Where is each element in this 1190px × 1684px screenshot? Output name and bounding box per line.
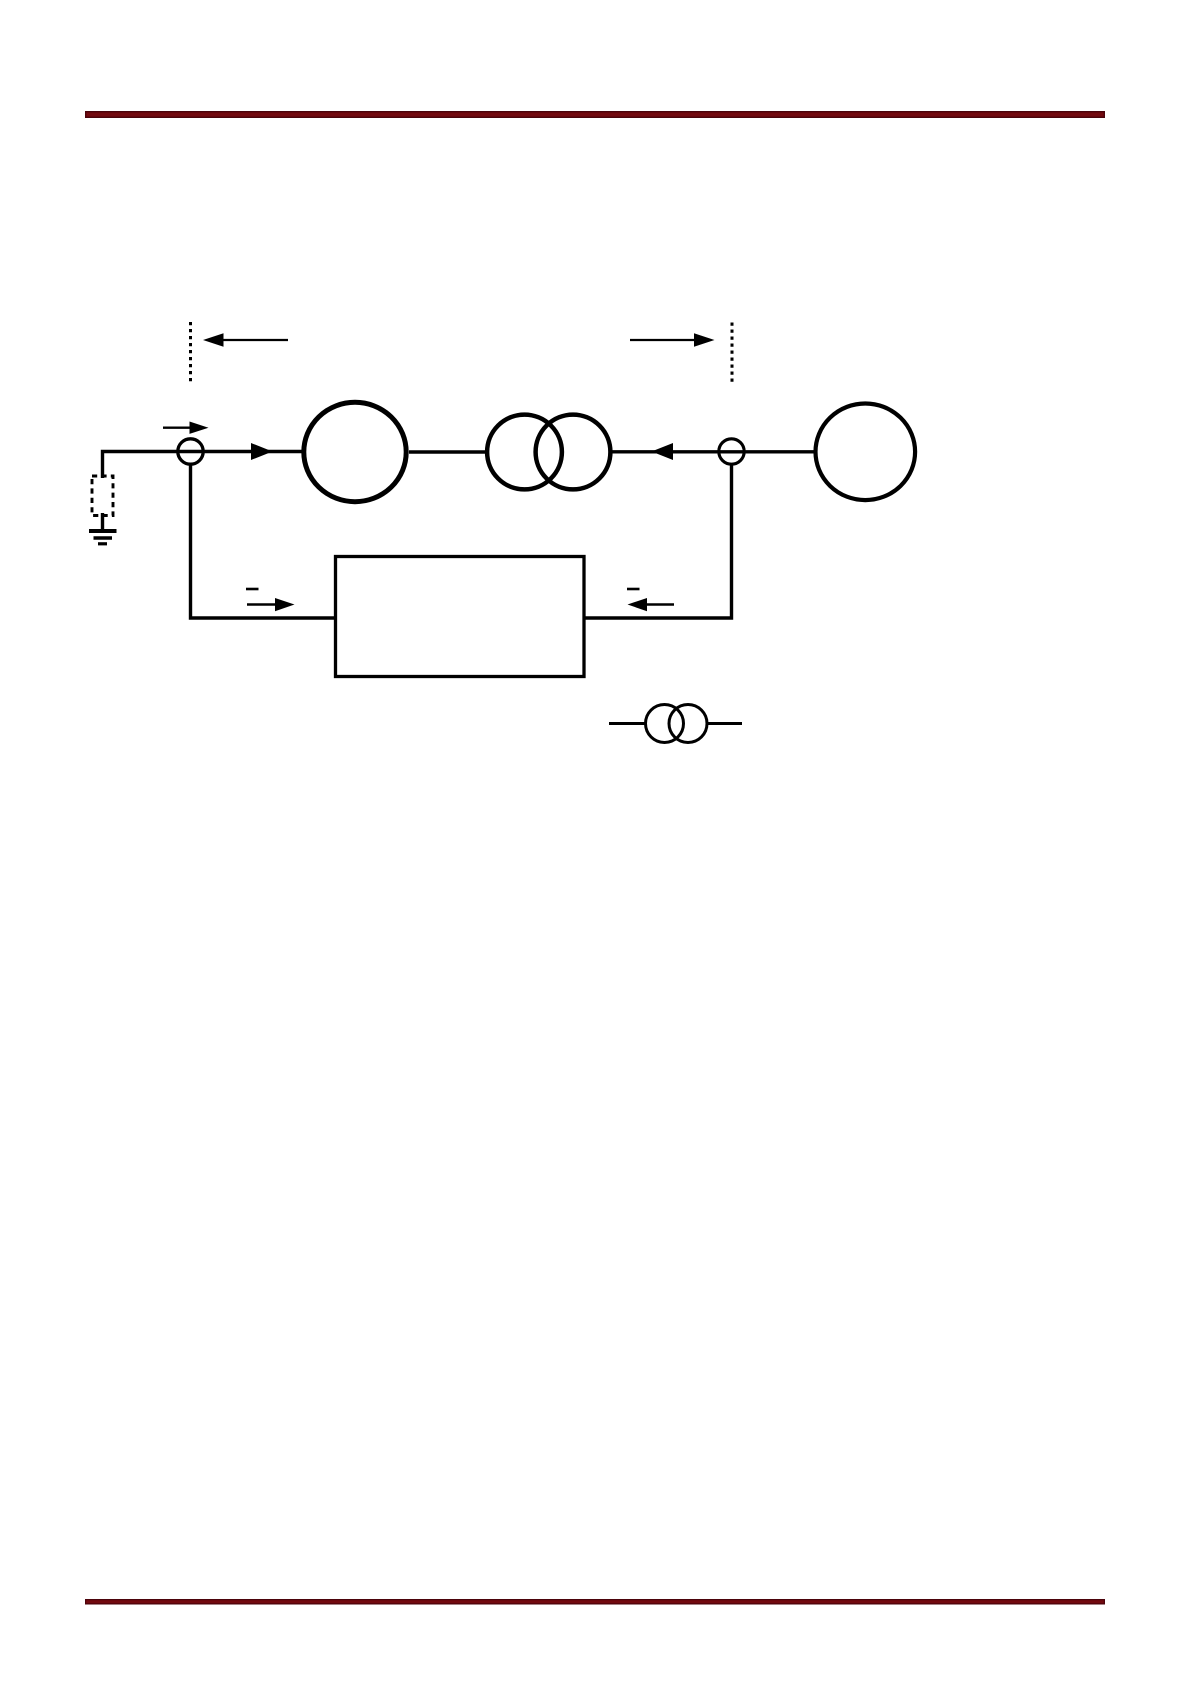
current arrow above left node (pointing right): [163, 422, 209, 434]
wire: left stub from dashed impedance up and right to machine SM1: [103, 452, 304, 479]
wire: SM1 to transformer: [409, 450, 487, 453]
minus sign right: [627, 588, 640, 591]
power-flow arrow P1 (pointing left): [203, 333, 288, 347]
top border rule: [86, 112, 1105, 118]
machine SM1 circle: [304, 402, 406, 501]
node circle right: [719, 439, 744, 464]
wire: dashed box to ground: [101, 513, 104, 530]
node circle left: [178, 439, 203, 464]
ground symbol: [89, 531, 117, 544]
mid-wire arrowhead (pointing left, after transformer): [652, 443, 674, 460]
boundary marker right (dotted line): [731, 323, 734, 385]
wire: right feedback (node down, left to control box): [584, 464, 732, 618]
impedance Zload dashed box: [92, 476, 113, 516]
feedback arrow left (pointing right): [247, 598, 295, 611]
legend transformer symbol: [609, 705, 742, 743]
power-flow arrow P2 (pointing right): [630, 333, 715, 347]
transformer T1 (two overlapping circles): [487, 415, 610, 490]
boundary marker left (dotted line): [189, 322, 192, 384]
minus sign left: [246, 588, 259, 591]
feedback arrow right (pointing left): [628, 598, 675, 611]
control block box: [336, 557, 585, 677]
mid-wire arrowhead (pointing right, before SM1): [251, 443, 273, 460]
wire: left feedback (node down, right to control box): [191, 464, 337, 618]
machine SM2 circle: [816, 404, 916, 501]
wire: transformer to node right and machine SM2: [612, 450, 815, 453]
bottom border rule: [86, 1600, 1105, 1604]
